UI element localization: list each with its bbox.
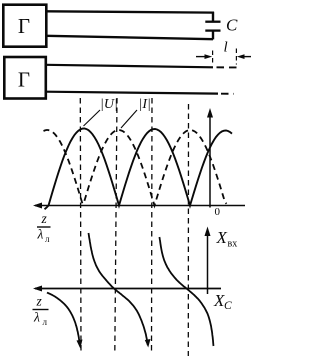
wire: circuit 2 bottom conductor dashed continuation [221,93,234,95]
dimension arrow left [196,56,209,58]
wire: circuit 1 bottom conductor [47,36,213,39]
branch 2 arrowhead [145,339,151,348]
svg-text:л: л [43,317,48,327]
curve |U| voltage standing wave (solid) [45,129,233,210]
svg-text:C: C [226,16,238,35]
guide dashed vertical line 2 [115,98,117,354]
capacitor C top plate [205,21,220,23]
middle graph axis left arrowhead [33,203,42,209]
guide dashed vertical line 1 [79,98,82,354]
wire: circuit 2 top conductor dashed continuation [217,66,239,68]
dimension tick right (dashed) [235,49,237,65]
svg-text:z: z [41,211,48,226]
svg-text:|I|: |I| [139,97,151,112]
reactance curve branch 1 [47,293,80,347]
branch 1 arrowhead [77,340,83,349]
svg-text:вх: вх [228,239,238,250]
middle graph horizontal axis z [35,205,245,207]
bottom graph vertical axis arrowhead [205,227,211,237]
bottom graph axis left arrowhead [33,286,42,292]
generator box Г (circuit 2) [4,57,46,99]
reactance curve branch 2 [89,233,148,345]
svg-text:л: л [45,234,50,244]
middle fraction bar [37,226,51,228]
wire: capacitor bottom stub [212,31,214,40]
guide dashed vertical line 4 [187,104,189,356]
curve |I| current standing wave (dashed) [44,130,227,206]
wire: circuit 2 top conductor [46,65,213,68]
capacitor C bottom plate [205,29,220,31]
svg-text:λ: λ [33,310,40,325]
reactance curve branch 3 [160,237,214,346]
wire: circuit 2 bottom conductor [46,92,218,94]
middle graph vertical axis arrowhead [207,108,213,118]
svg-text:l: l [224,40,228,56]
bottom fraction bar [33,309,49,311]
wire: circuit 1 top conductor [47,11,214,12]
middle graph vertical axis [209,112,211,208]
dimension tick left (dashed) [212,51,214,65]
wire: capacitor top stub [212,12,214,21]
guide dashed vertical line 3 [151,98,154,352]
svg-text:λ: λ [37,227,44,242]
bottom graph vertical axis X [207,231,209,294]
svg-text:Г: Г [18,14,30,38]
bottom graph horizontal axis [35,288,221,290]
svg-text:X: X [216,228,228,247]
leader line for |U| [84,110,101,126]
svg-text:0: 0 [215,206,221,218]
dimension arrow right [241,56,252,58]
svg-text:|U|: |U| [100,97,118,112]
generator box Г (circuit 1) [3,5,46,47]
svg-text:z: z [36,294,43,309]
svg-text:C: C [224,300,232,312]
leader line for |I| [121,110,137,128]
svg-text:Г: Г [18,68,30,92]
